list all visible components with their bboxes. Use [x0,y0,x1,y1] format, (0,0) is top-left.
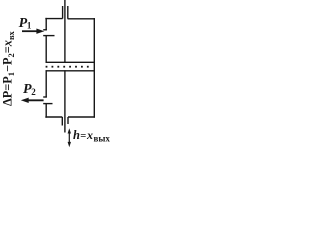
P1 port upper flange [43,29,47,31]
svg-text:h: h [73,128,80,142]
P1 port lower flange [43,35,54,37]
svg-text:х: х [86,128,93,142]
cylinder bottom cap right segment [68,116,95,118]
cylinder bottom cap left segment [45,116,62,118]
top gland right line [67,6,69,19]
P1 inlet arrow [22,29,44,34]
left wall bottom segment [45,103,47,118]
svg-text:=: = [80,131,86,142]
left wall middle segment [45,35,47,63]
piston top line [46,61,96,63]
P2 port lower flange [43,103,52,105]
svg-text:1: 1 [27,21,32,31]
piston stipple dots [46,66,48,68]
piston rod lower part [64,70,66,132]
bottom gland right line [67,117,69,124]
top gland left line [62,6,64,19]
piston bottom line [46,70,96,72]
h displacement double arrow [68,128,71,147]
svg-text:2: 2 [31,87,36,97]
svg-text:ΔP=P1−P2=хвх: ΔP=P1−P2=хвх [1,30,16,106]
rotated label dP = P1 - P2 = x_vh [1,30,16,106]
cylinder top cap right segment [68,18,95,20]
P2 port upper flange [43,96,47,98]
cylinder top cap left segment [45,18,62,20]
left wall lower-middle segment [45,70,47,97]
piston rod upper part [64,0,66,63]
left wall upper segment [45,18,47,30]
P2 outlet arrow [21,98,44,103]
right wall [93,18,95,118]
svg-text:вых: вых [94,133,111,143]
bottom gland left line [61,117,63,126]
